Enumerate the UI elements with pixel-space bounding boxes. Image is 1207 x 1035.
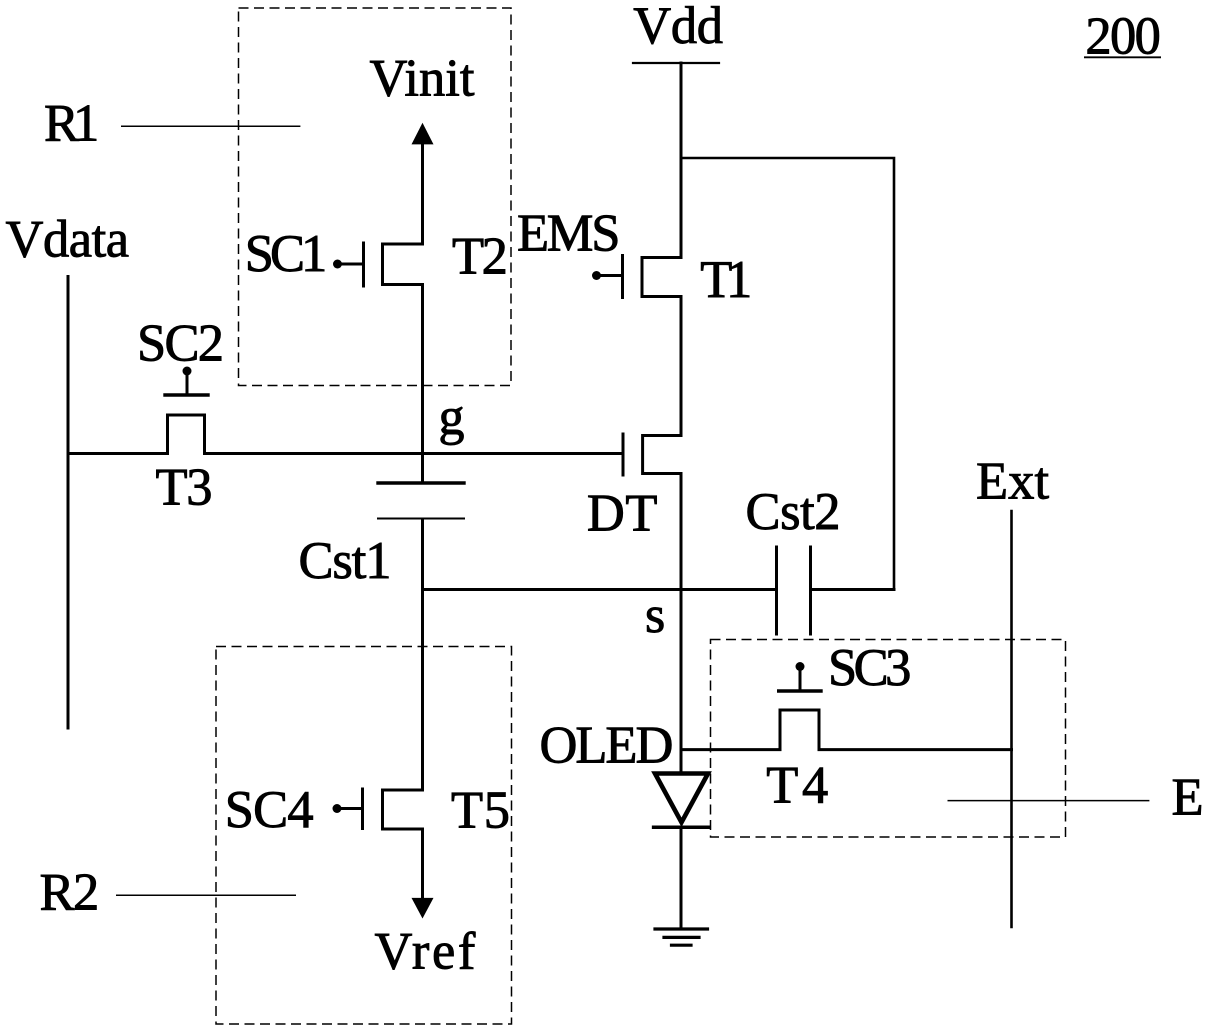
svg-text:Vdd: Vdd <box>633 0 723 55</box>
svg-text:DT: DT <box>587 485 658 543</box>
svg-text:Cst2: Cst2 <box>746 483 841 541</box>
svg-text:OLED: OLED <box>540 716 674 774</box>
svg-text:E: E <box>1172 769 1204 827</box>
svg-text:Vref: Vref <box>375 923 476 981</box>
svg-text:Ext: Ext <box>976 453 1050 511</box>
svg-text:200: 200 <box>1085 8 1161 66</box>
svg-text:T2: T2 <box>452 228 508 286</box>
svg-text:T3: T3 <box>156 459 213 517</box>
svg-text:R1: R1 <box>44 95 99 153</box>
svg-text:SC2: SC2 <box>137 315 224 373</box>
svg-text:T1: T1 <box>700 251 752 309</box>
svg-text:g: g <box>439 389 465 446</box>
svg-text:T4: T4 <box>766 756 828 814</box>
svg-text:Vdata: Vdata <box>6 210 130 268</box>
svg-text:T5: T5 <box>451 781 510 839</box>
svg-text:SC1: SC1 <box>245 225 328 283</box>
svg-text:EMS: EMS <box>517 205 620 263</box>
svg-text:s: s <box>645 587 665 644</box>
svg-text:SC4: SC4 <box>225 781 314 839</box>
svg-text:SC3: SC3 <box>828 639 911 697</box>
svg-text:Vinit: Vinit <box>370 50 475 108</box>
svg-text:R2: R2 <box>40 864 100 922</box>
svg-text:Cst1: Cst1 <box>299 532 392 590</box>
